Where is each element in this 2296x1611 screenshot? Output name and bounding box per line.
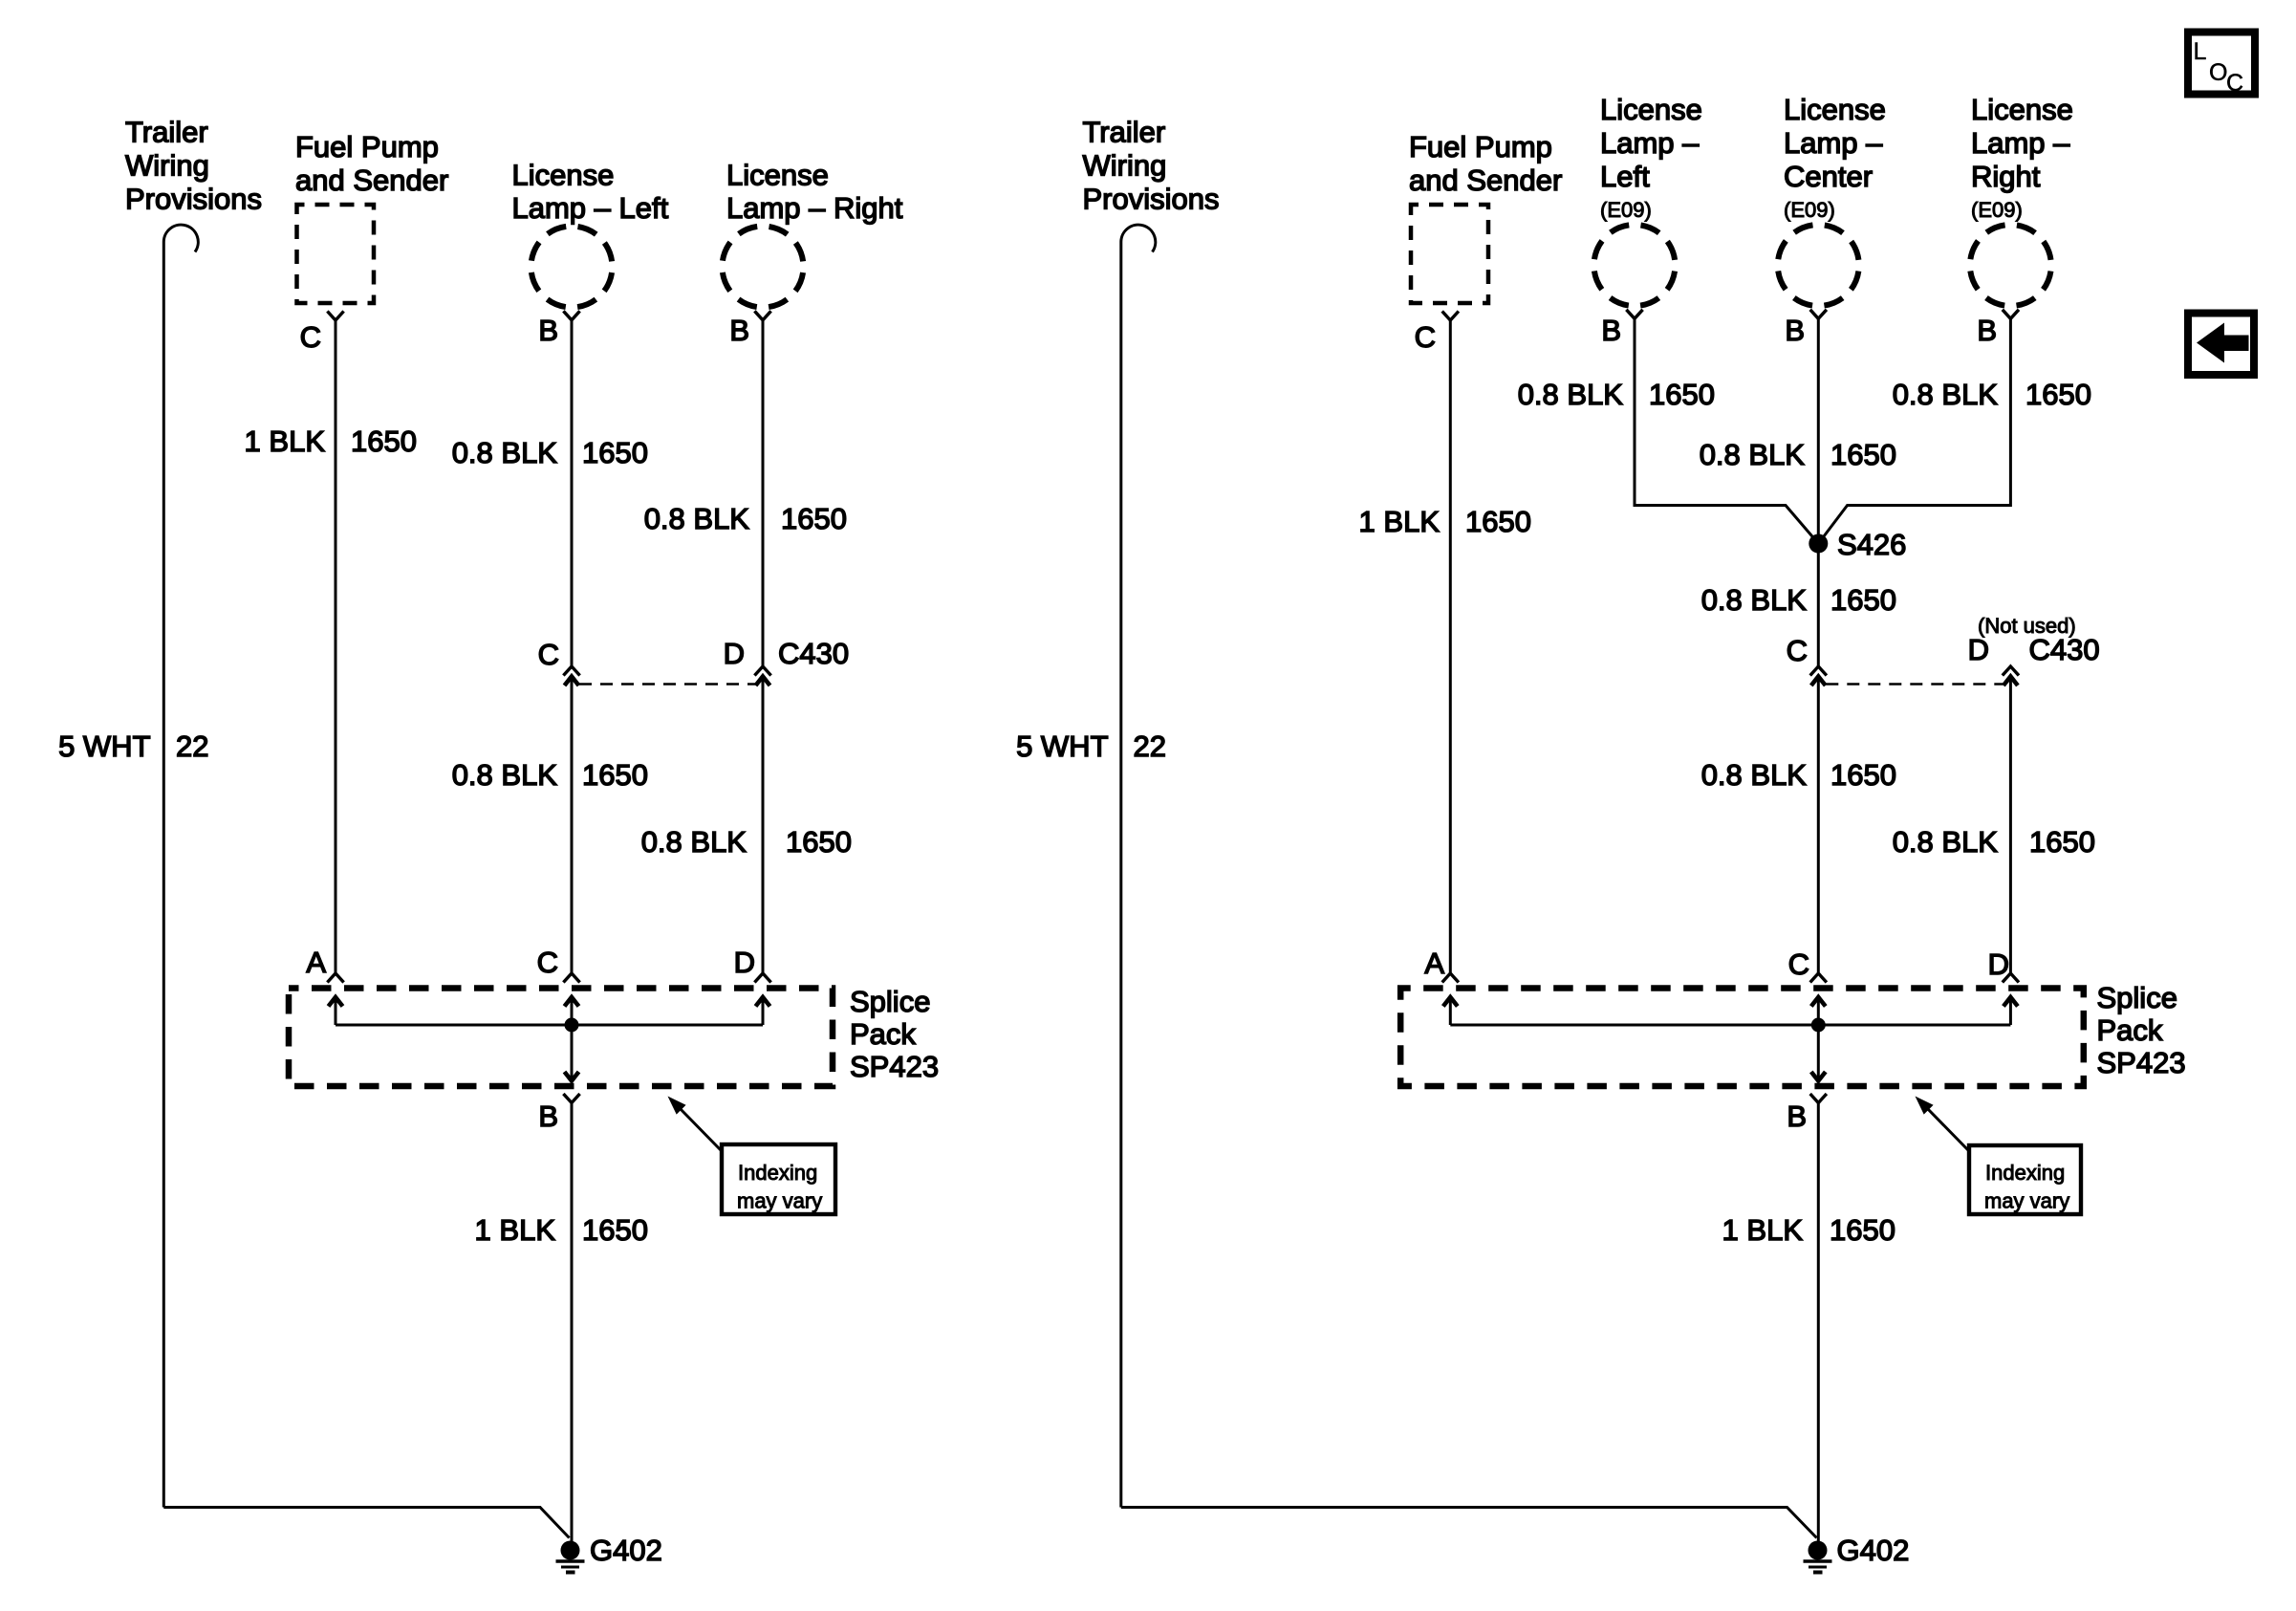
wire: 0.8 BLK 1650 C430 pin C to splice pin C (left) [571, 676, 574, 972]
ground G402 (right): earth bars [1804, 1559, 1832, 1562]
svg-text:Lamp –: Lamp – [1784, 126, 1883, 160]
svg-text:Trailer: Trailer [125, 116, 208, 149]
svg-text:Provisions: Provisions [125, 183, 262, 216]
splice pack SP423 (left): dashed box [289, 989, 833, 1087]
svg-text:Lamp – Left: Lamp – Left [512, 191, 669, 225]
svg-text:0.8 BLK: 0.8 BLK [1893, 378, 1999, 411]
svg-text:may vary: may vary [737, 1189, 822, 1213]
svg-text:C: C [1787, 634, 1808, 667]
wire: trailer provisions vertical 5 WHT (left) [162, 242, 165, 1508]
svg-text:0.8 BLK: 0.8 BLK [452, 758, 558, 792]
svg-text:1 BLK: 1 BLK [475, 1213, 556, 1247]
wire: 0.8 BLK 1650 lamp right down to S426 (right) [1818, 318, 2010, 543]
svg-text:Wiring: Wiring [125, 149, 209, 183]
svg-text:(E09): (E09) [1971, 198, 2023, 222]
svg-text:Trailer: Trailer [1083, 116, 1166, 149]
svg-text:B: B [538, 314, 558, 347]
svg-text:Provisions: Provisions [1083, 183, 1220, 216]
svg-text:1650: 1650 [1465, 505, 1531, 538]
svg-text:1650: 1650 [582, 758, 648, 792]
svg-text:Splice: Splice [2097, 981, 2177, 1014]
svg-text:(E09): (E09) [1600, 198, 1652, 222]
svg-text:1650: 1650 [1649, 378, 1715, 411]
wire: 0.8 BLK 1650 lamp center down to S426 (right) [1817, 318, 1820, 543]
svg-text:Pack: Pack [2097, 1013, 2163, 1047]
svg-text:SP423: SP423 [850, 1050, 939, 1083]
svg-text:Left: Left [1600, 160, 1650, 193]
callout arrow: indexing may vary (right) [1925, 1106, 1968, 1150]
svg-text:Lamp – Right: Lamp – Right [726, 191, 903, 225]
svg-text:D: D [724, 637, 745, 670]
svg-text:0.8 BLK: 0.8 BLK [1700, 438, 1806, 471]
svg-text:and Sender: and Sender [1409, 163, 1562, 197]
wire: 1 BLK 1650 splice pin B to G402 (right) [1817, 1103, 1820, 1544]
svg-text:1650: 1650 [1830, 438, 1896, 471]
wire: 0.8 BLK 1650 S426 to C430 pin C (right) [1817, 544, 1820, 667]
svg-text:1650: 1650 [351, 425, 417, 458]
wire: 1 BLK 1650 splice pin B to G402 (left) [571, 1103, 574, 1544]
wire: trailer provisions bottom run to G402 (left) [163, 1508, 569, 1538]
svg-text:22: 22 [176, 729, 208, 763]
svg-text:Fuel Pump: Fuel Pump [1409, 130, 1552, 163]
callout arrow: indexing may vary (left) [678, 1106, 721, 1150]
svg-text:B: B [538, 1099, 558, 1133]
splice pack SP423 (right): dashed box [1400, 989, 2084, 1087]
svg-text:0.8 BLK: 0.8 BLK [452, 436, 558, 469]
svg-text:1650: 1650 [2029, 825, 2095, 859]
svg-text:Lamp –: Lamp – [1971, 126, 2070, 160]
svg-text:License: License [726, 159, 829, 192]
svg-text:1650: 1650 [1830, 583, 1896, 617]
svg-text:Splice: Splice [850, 985, 930, 1018]
svg-text:5 WHT: 5 WHT [58, 729, 151, 763]
callout box: Indexing may vary (left) [722, 1144, 835, 1214]
svg-text:22: 22 [1134, 729, 1166, 763]
svg-text:5 WHT: 5 WHT [1016, 729, 1109, 763]
splice SP423 pin B exit arrow (right) [1817, 1025, 1820, 1080]
connector C430 (right): dashed body link [1826, 683, 2003, 686]
wire: 0.8 BLK 1650 C430 pin D to splice pin D (left) [762, 676, 765, 972]
svg-text:0.8 BLK: 0.8 BLK [1701, 758, 1808, 792]
splice S426: junction dot [1809, 534, 1828, 554]
svg-text:0.8 BLK: 0.8 BLK [644, 502, 750, 535]
svg-text:C430: C430 [2029, 633, 2100, 666]
svg-text:SP423: SP423 [2097, 1046, 2186, 1079]
svg-text:S426: S426 [1837, 528, 1906, 561]
svg-text:D: D [734, 946, 755, 979]
wire: splice internal bus (left) [336, 1024, 763, 1027]
svg-text:License: License [512, 159, 615, 192]
svg-text:0.8 BLK: 0.8 BLK [1701, 583, 1808, 617]
wire: trailer wiring provisions hook (right) [1121, 225, 1156, 251]
svg-text:1650: 1650 [1830, 1213, 1895, 1247]
svg-text:(E09): (E09) [1784, 198, 1835, 222]
wire: 0.8 BLK 1650 C430 pin C to splice pin C (right) [1817, 676, 1820, 972]
svg-text:and Sender: and Sender [295, 163, 448, 197]
svg-text:C: C [1415, 320, 1436, 354]
wire: trailer wiring provisions hook (left) [163, 225, 198, 251]
svg-text:Pack: Pack [850, 1017, 916, 1051]
svg-text:Wiring: Wiring [1083, 149, 1167, 183]
svg-text:Lamp –: Lamp – [1600, 126, 1700, 160]
svg-text:C430: C430 [778, 637, 849, 670]
wire: splice internal bus (right) [1450, 1024, 2010, 1027]
svg-text:Right: Right [1971, 160, 2041, 193]
wire: 1 BLK 1650 fuel pump to splice pin A (left) [335, 320, 337, 972]
svg-text:1650: 1650 [582, 1213, 648, 1247]
svg-text:A: A [1424, 947, 1444, 980]
svg-text:1650: 1650 [786, 825, 852, 859]
wire: 0.8 BLK 1650 lamp left down to S426 (right) [1635, 318, 1818, 543]
svg-text:O: O [2209, 59, 2227, 86]
svg-text:B: B [1601, 314, 1621, 347]
wire: C430 pin D to splice pin D (right) [2009, 676, 2012, 972]
svg-text:B: B [1977, 314, 1997, 347]
junction dot on splice bus (left) [565, 1018, 579, 1033]
wire: 1 BLK 1650 fuel pump to splice pin A (right) [1449, 320, 1452, 972]
svg-text:Indexing: Indexing [1985, 1161, 2065, 1185]
svg-text:G402: G402 [590, 1534, 662, 1567]
svg-text:B: B [729, 314, 749, 347]
ground G402 (left): junction dot [561, 1541, 580, 1560]
svg-text:C: C [538, 638, 559, 671]
svg-text:B: B [1787, 1099, 1807, 1133]
svg-text:Indexing: Indexing [738, 1161, 817, 1185]
svg-text:D: D [1968, 633, 1989, 666]
svg-text:License: License [1784, 93, 1886, 126]
wire: 0.8 BLK 1650 lamp right to C430 pin D (left) [762, 320, 765, 666]
svg-text:0.8 BLK: 0.8 BLK [641, 825, 747, 859]
svg-text:1 BLK: 1 BLK [1359, 505, 1440, 538]
icon: LOC page marker box (top right) [2188, 33, 2255, 95]
wire: trailer provisions vertical 5 WHT (right) [1119, 242, 1122, 1508]
svg-text:0.8 BLK: 0.8 BLK [1518, 378, 1624, 411]
svg-text:C: C [300, 320, 321, 354]
ground G402 (left): earth bars [556, 1559, 585, 1562]
svg-text:C: C [537, 946, 558, 979]
svg-text:may vary: may vary [1984, 1189, 2069, 1213]
connector C430 (left): dashed body link [579, 683, 755, 686]
svg-text:1650: 1650 [2025, 378, 2091, 411]
icon: back arrow box (right margin) [2188, 314, 2254, 376]
svg-text:1650: 1650 [1830, 758, 1896, 792]
svg-text:B: B [1785, 314, 1805, 347]
svg-text:C: C [2226, 70, 2243, 97]
svg-text:1 BLK: 1 BLK [1722, 1213, 1804, 1247]
wire: 0.8 BLK 1650 lamp left to C430 pin C (left) [571, 320, 574, 666]
svg-text:L: L [2194, 38, 2207, 65]
svg-text:Fuel Pump: Fuel Pump [295, 130, 439, 163]
wire: trailer provisions bottom run to G402 (right) [1121, 1508, 1817, 1538]
svg-text:1650: 1650 [582, 436, 648, 469]
svg-text:License: License [1600, 93, 1702, 126]
junction dot on splice bus (right) [1811, 1018, 1826, 1033]
svg-text:0.8 BLK: 0.8 BLK [1893, 825, 1999, 859]
svg-text:C: C [1788, 947, 1809, 981]
svg-text:License: License [1971, 93, 2073, 126]
svg-text:Center: Center [1784, 160, 1873, 193]
svg-text:G402: G402 [1837, 1534, 1910, 1567]
splice SP423 pin B exit arrow (left) [571, 1025, 574, 1080]
svg-text:A: A [306, 946, 326, 979]
ground G402 (right): junction dot [1809, 1541, 1828, 1560]
callout box: Indexing may vary (right) [1969, 1145, 2081, 1214]
svg-text:1 BLK: 1 BLK [245, 425, 326, 458]
svg-text:1650: 1650 [781, 502, 847, 535]
